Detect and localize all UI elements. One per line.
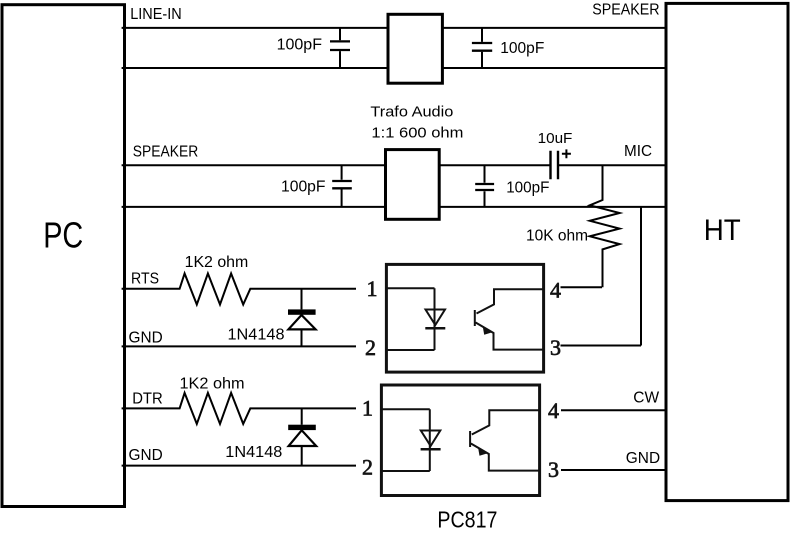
- svg-text:Trafo Audio: Trafo Audio: [370, 104, 453, 121]
- svg-text:1:1 600 ohm: 1:1 600 ohm: [371, 124, 463, 141]
- svg-text:DTR: DTR: [132, 391, 163, 408]
- svg-text:MIC: MIC: [624, 143, 652, 160]
- svg-text:GND: GND: [626, 450, 660, 467]
- svg-text:SPEAKER: SPEAKER: [133, 143, 198, 160]
- svg-text:1N4148: 1N4148: [225, 444, 282, 461]
- svg-text:2: 2: [365, 335, 376, 360]
- svg-text:GND: GND: [129, 330, 163, 347]
- svg-text:1N4148: 1N4148: [228, 326, 285, 343]
- svg-text:100pF: 100pF: [281, 178, 326, 195]
- svg-text:4: 4: [550, 278, 561, 303]
- svg-text:RTS: RTS: [131, 271, 159, 288]
- svg-text:PC817: PC817: [437, 506, 497, 532]
- svg-text:10K ohm: 10K ohm: [526, 227, 588, 244]
- svg-text:GND: GND: [129, 447, 163, 464]
- svg-text:PC: PC: [43, 214, 83, 255]
- svg-text:100pF: 100pF: [500, 40, 544, 57]
- svg-text:SPEAKER: SPEAKER: [592, 2, 659, 19]
- svg-text:100pF: 100pF: [506, 179, 549, 196]
- svg-text:HT: HT: [704, 214, 741, 247]
- svg-text:1: 1: [362, 396, 373, 421]
- svg-text:100pF: 100pF: [277, 37, 322, 54]
- svg-text:3: 3: [550, 335, 561, 360]
- svg-text:1: 1: [367, 276, 378, 301]
- svg-text:4: 4: [548, 398, 559, 423]
- svg-text:2: 2: [362, 454, 373, 479]
- svg-text:10uF: 10uF: [538, 130, 573, 147]
- svg-text:LINE-IN: LINE-IN: [130, 6, 182, 23]
- svg-text:CW: CW: [633, 389, 659, 406]
- svg-text:1K2 ohm: 1K2 ohm: [180, 375, 245, 392]
- svg-text:3: 3: [548, 457, 559, 482]
- svg-text:1K2 ohm: 1K2 ohm: [185, 254, 249, 271]
